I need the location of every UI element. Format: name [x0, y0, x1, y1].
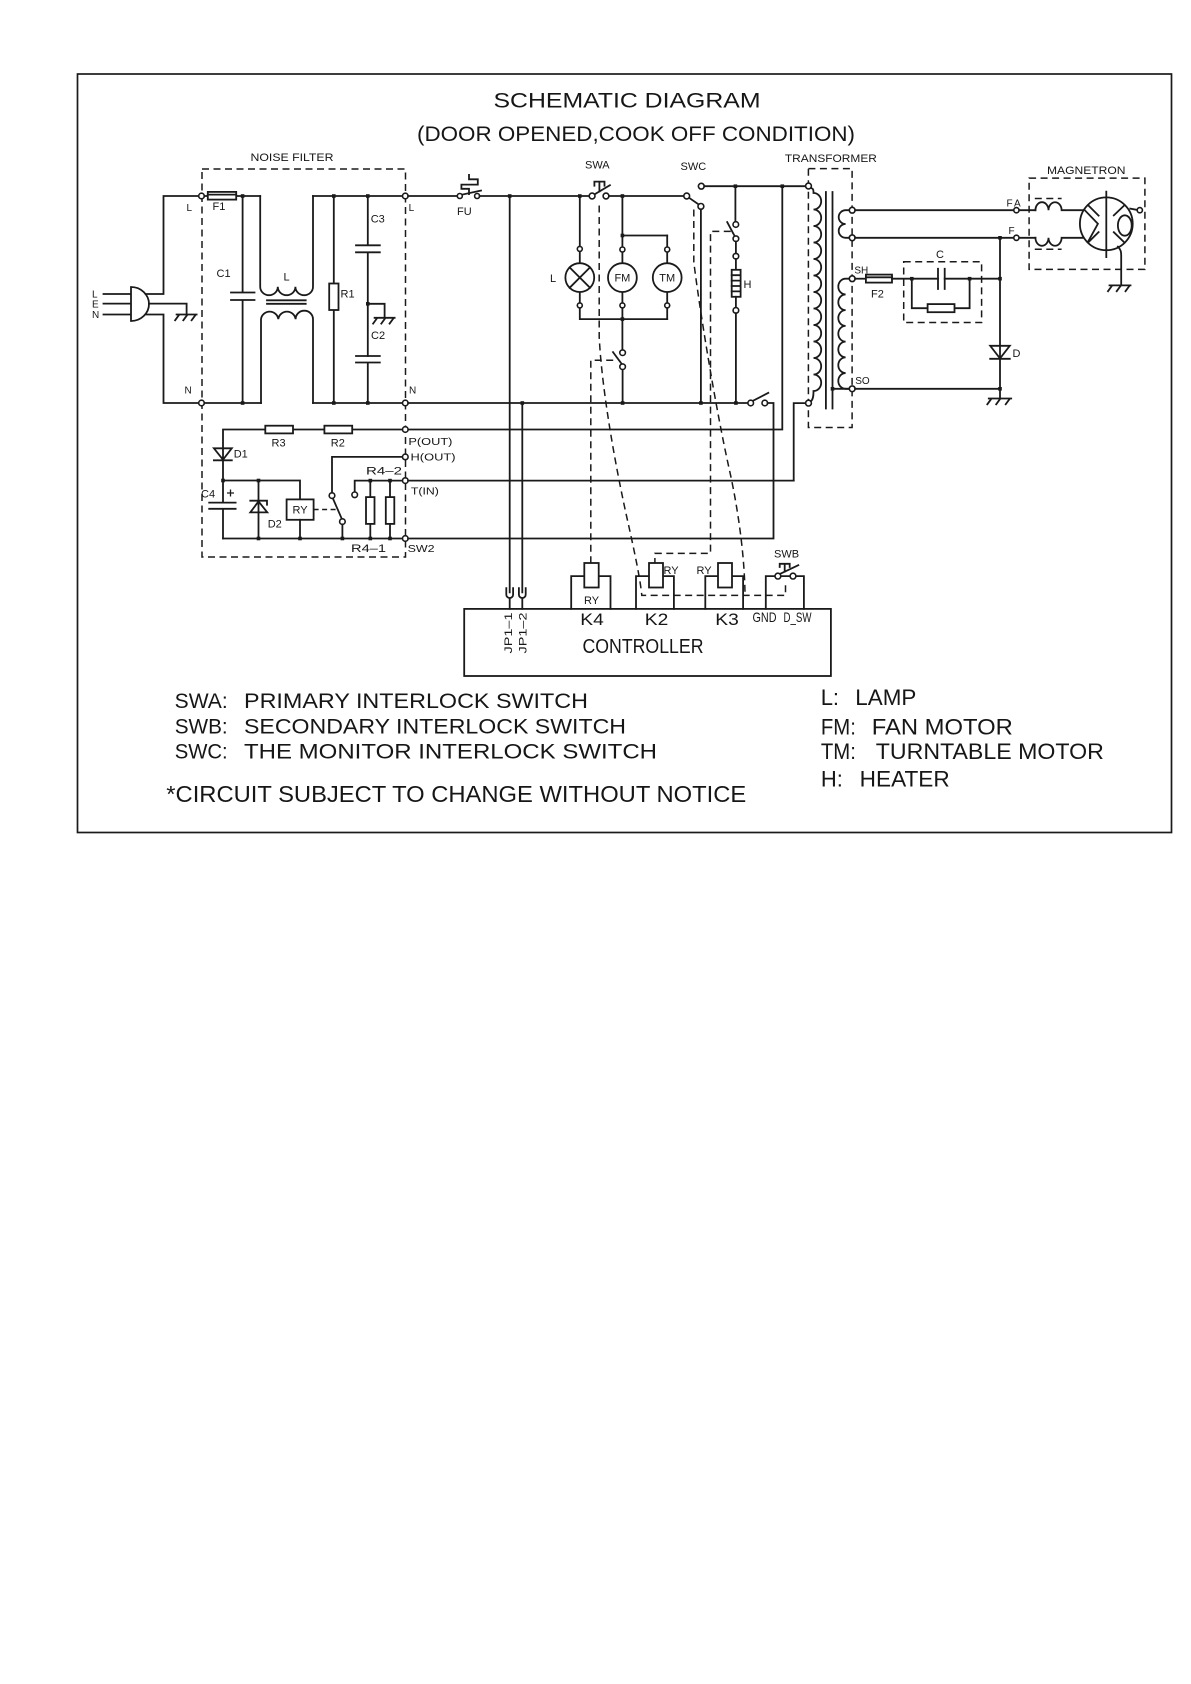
SH line F2 [855, 278, 866, 280]
svg-text:D_SW: D_SW [784, 609, 813, 625]
svg-text:D: D [1013, 348, 1021, 360]
svg-text:N: N [92, 310, 99, 321]
svg-text:C1: C1 [217, 268, 231, 280]
svg-text:FA: FA [1007, 199, 1023, 210]
wire plug N to bottom rail [146, 315, 202, 404]
ground below magnetron [1108, 285, 1131, 291]
svg-text:L: L [550, 273, 556, 285]
N rail to monitor contact [408, 402, 748, 404]
fuse FU [462, 191, 481, 195]
top rail node L to FU [408, 195, 460, 197]
svg-text:CONTROLLER: CONTROLLER [583, 636, 704, 658]
svg-text:F: F [1009, 226, 1015, 237]
node N left [199, 400, 205, 406]
svg-text:FM:: FM: [821, 715, 856, 740]
node FA transformer [849, 207, 855, 213]
P(OUT) line with riser [223, 186, 782, 448]
turntable motor TM [666, 236, 668, 320]
rail FU to SWA [480, 195, 592, 197]
dashed link SWA to SWB [599, 206, 785, 596]
rail SWA to SWC [609, 195, 684, 197]
svg-text:K2: K2 [645, 610, 669, 629]
capacitor C plates [938, 269, 945, 289]
svg-text:SO: SO [855, 376, 870, 387]
svg-text:P(OUT): P(OUT) [408, 437, 452, 448]
node L left [199, 193, 205, 199]
zener D2 [250, 481, 267, 539]
svg-text:HEATER: HEATER [860, 767, 950, 792]
svg-text:H:: H: [821, 767, 843, 792]
svg-text:SCHEMATIC DIAGRAM: SCHEMATIC DIAGRAM [494, 90, 761, 113]
fuse F2 [866, 275, 892, 283]
svg-text:D2: D2 [268, 519, 282, 531]
antenna terminal [1130, 209, 1137, 210]
ground near plug [175, 315, 197, 321]
choke F [1035, 238, 1084, 246]
switch SWB box [766, 576, 804, 609]
inner dashed lines chokes [1035, 199, 1062, 250]
magnetron anode chevron [1084, 210, 1098, 242]
svg-text:N: N [409, 386, 416, 397]
capacitor C3 [356, 196, 380, 356]
relay K3 box [705, 576, 743, 609]
svg-text:SWA:: SWA: [175, 690, 228, 713]
fuse F1 [208, 192, 236, 200]
junction dots noise filter [241, 194, 245, 198]
node F magnetron [1014, 235, 1019, 240]
svg-text:LAMP: LAMP [855, 685, 916, 710]
node F transformer [849, 235, 855, 241]
svg-text:E: E [92, 300, 99, 311]
svg-text:(DOOR OPENED,COOK OFF CONDITIO: (DOOR OPENED,COOK OFF CONDITION) [417, 123, 855, 146]
switch SWA [595, 185, 610, 194]
svg-text:FU: FU [457, 206, 472, 218]
wire winding to core [833, 388, 850, 390]
dots on SH line [910, 277, 914, 281]
ground near C2 [373, 318, 395, 324]
svg-text:RY: RY [584, 595, 600, 607]
resistor R4-1 [369, 481, 371, 539]
junction dots lower-left block [221, 479, 225, 483]
svg-text:R4–2: R4–2 [366, 466, 402, 478]
node SO [849, 386, 855, 392]
SO line [855, 388, 1000, 390]
svg-text:D1: D1 [234, 449, 248, 461]
resistor R3 [265, 426, 293, 434]
FA line to magnetron [855, 209, 1035, 211]
node SW2 [403, 536, 409, 542]
magnetron circle [1080, 197, 1133, 250]
SH line continues [892, 278, 1000, 280]
capacitor C4 [209, 481, 235, 539]
diode D1 [214, 448, 232, 480]
svg-text:SWB:: SWB: [175, 715, 228, 738]
svg-text:SECONDARY INTERLOCK SWITCH: SECONDARY INTERLOCK SWITCH [244, 715, 626, 738]
svg-text:R3: R3 [272, 438, 286, 450]
dashed link FM switch to K4 [591, 360, 613, 563]
magnetron cathode to ground [1118, 247, 1121, 286]
svg-text:GND: GND [753, 609, 777, 625]
capacitor C2 [356, 356, 380, 403]
transformer core [826, 192, 833, 409]
T(IN) line left portion [355, 481, 406, 492]
svg-text:L: L [187, 203, 193, 214]
capacitor C dashed box [904, 262, 982, 323]
wire SWC to N rail [700, 209, 702, 403]
svg-text:SWB: SWB [774, 549, 799, 561]
wire N rail switch down to SW2 line [408, 403, 773, 539]
relay K2 box [636, 576, 674, 609]
heater branch from 186 line [734, 186, 736, 222]
svg-text:F1: F1 [213, 201, 226, 213]
transformer HV winding [838, 279, 849, 389]
svg-text:TRANSFORMER: TRANSFORMER [785, 153, 877, 165]
transformer primary terminals [806, 183, 812, 189]
relay contact SW2 area [332, 457, 405, 493]
wire JP1-2 from N rail [521, 403, 523, 592]
svg-text:FAN MOTOR: FAN MOTOR [872, 715, 1013, 740]
dashed link SWC [694, 210, 745, 594]
svg-text:JP1–2: JP1–2 [518, 613, 530, 654]
svg-text:C2: C2 [371, 330, 385, 342]
line SWC to transformer primary top [704, 185, 805, 187]
middle line D1/D2/RY [223, 481, 300, 500]
svg-text:C3: C3 [371, 214, 385, 226]
C4 plus sign [227, 490, 234, 497]
top rail choke to node L [313, 195, 403, 197]
svg-text:THE MONITOR INTERLOCK SWITCH: THE MONITOR INTERLOCK SWITCH [244, 741, 657, 764]
node SH [849, 276, 855, 282]
choke L bottom winding [261, 311, 313, 403]
svg-text:*CIRCUIT SUBJECT TO CHANGE WIT: *CIRCUIT SUBJECT TO CHANGE WITHOUT NOTIC… [166, 781, 746, 807]
node FA magnetron [1014, 208, 1019, 213]
svg-text:C: C [936, 249, 944, 261]
transformer dashed box [808, 169, 852, 428]
svg-text:FM: FM [614, 273, 630, 285]
svg-text:R4–1: R4–1 [351, 543, 386, 555]
relay coil RY box [287, 499, 314, 519]
svg-text:MAGNETRON: MAGNETRON [1047, 165, 1126, 177]
svg-text:SWC: SWC [681, 161, 707, 173]
resistor R2 [324, 426, 352, 434]
svg-text:TM: TM [659, 273, 675, 285]
switch SWC [689, 198, 699, 205]
lamp branch wire [580, 196, 667, 319]
noise filter dashed box [202, 169, 406, 557]
junction dots main area [508, 194, 512, 198]
ground below D [987, 399, 1011, 405]
node H(OUT) [403, 454, 409, 460]
plug symbol [131, 287, 149, 321]
bottom rail segments [204, 402, 402, 404]
node T(IN) [403, 478, 409, 484]
resistor R1 [333, 196, 335, 403]
T(IN) riser to transformer [794, 403, 806, 481]
wire JP1-1 from L rail [509, 196, 511, 592]
svg-text:L: L [284, 272, 290, 284]
svg-text:RY: RY [664, 565, 680, 577]
svg-text:JP1–1: JP1–1 [503, 613, 515, 654]
wire plug E to ground [149, 304, 187, 315]
svg-text:RY: RY [697, 565, 713, 577]
T(IN) line right portion [408, 480, 794, 482]
FM TM riser and split [622, 196, 667, 319]
svg-text:H: H [744, 279, 752, 291]
resistor R4-2 [389, 481, 391, 539]
magnetron center line [1105, 192, 1107, 258]
F line to magnetron [855, 237, 1035, 239]
svg-text:RY: RY [292, 505, 308, 517]
magnetron dashed box [1029, 178, 1145, 269]
svg-text:K3: K3 [715, 610, 739, 629]
svg-text:NOISE FILTER: NOISE FILTER [251, 152, 334, 164]
svg-text:TURNTABLE MOTOR: TURNTABLE MOTOR [876, 739, 1104, 764]
svg-text:R2: R2 [331, 438, 345, 450]
N rail contact switch [753, 393, 768, 401]
diode D vertical [999, 238, 1001, 399]
mains input stub wires [104, 294, 132, 315]
node L right [403, 193, 409, 199]
svg-text:TM:: TM: [821, 739, 856, 764]
node N right [403, 400, 409, 406]
wire C2 tap to ground [368, 304, 385, 318]
svg-text:T(IN): T(IN) [411, 487, 439, 498]
secondary interlock switch under FM [613, 319, 623, 403]
JP1 connector cups [506, 588, 513, 609]
magnetron right vanes [1114, 205, 1125, 242]
border frame [78, 74, 1172, 833]
heater H [732, 270, 741, 297]
svg-text:PRIMARY INTERLOCK SWITCH: PRIMARY INTERLOCK SWITCH [244, 690, 588, 713]
bottom SW2 line [223, 538, 405, 540]
svg-text:L: L [409, 203, 415, 214]
magnetron cavity ellipse [1118, 215, 1132, 235]
svg-text:R1: R1 [341, 289, 355, 301]
svg-text:C4: C4 [201, 489, 215, 501]
svg-text:N: N [185, 386, 192, 397]
bleed resistor loop [912, 279, 970, 309]
diode D [990, 346, 1010, 359]
relay K4 box [571, 576, 610, 609]
svg-text:SWC:: SWC: [175, 741, 228, 764]
lamp L [565, 263, 594, 292]
fan motor FM [608, 263, 637, 292]
svg-text:F2: F2 [871, 289, 884, 301]
controller box [464, 609, 831, 676]
choke FA [1035, 202, 1083, 210]
svg-text:L:: L: [821, 685, 839, 710]
dashed link heater switch to K2 [655, 231, 731, 563]
transformer filament winding [839, 210, 850, 238]
svg-text:SW2: SW2 [408, 544, 436, 555]
choke L top winding [260, 196, 313, 295]
svg-text:H(OUT): H(OUT) [411, 453, 456, 464]
capacitor C1 [231, 196, 255, 403]
dashed link RY to contact [314, 509, 336, 511]
transformer primary winding [810, 188, 822, 403]
node P(OUT) [403, 427, 409, 433]
heater switch blade [727, 222, 734, 236]
wire plug L to top rail [146, 196, 202, 294]
top rail segment through F1 [204, 195, 260, 197]
svg-text:K4: K4 [580, 610, 604, 629]
choke core [267, 300, 306, 304]
svg-text:SWA: SWA [585, 160, 610, 172]
